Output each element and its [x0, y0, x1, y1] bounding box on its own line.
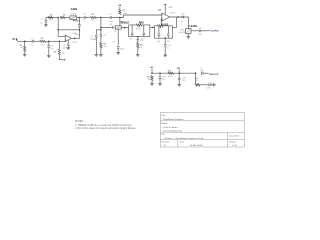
wire U1B inverting feed — [120, 15, 162, 18]
svg-text:1u: 1u — [40, 22, 42, 24]
capacitor C6 — [84, 16, 86, 19]
wire R3 to VB — [59, 55, 62, 60]
wire output riser — [71, 30, 79, 39]
svg-text:100n: 100n — [198, 34, 202, 36]
wire U1A inverting input — [58, 30, 65, 37]
notes text — [75, 121, 137, 130]
svg-text:22n: 22n — [140, 40, 143, 42]
wire C5 to feedback rail — [78, 27, 80, 30]
LED D3 — [209, 82, 212, 86]
resistor R9 — [137, 43, 139, 49]
potentiometer VR2 TREBLE — [115, 26, 121, 29]
svg-text:D:\Users ... ChuckMaster Disto: D:\Users ... ChuckMaster Distortion v1.1… — [165, 137, 205, 140]
junction input/R1 — [24, 41, 26, 43]
VR4 wiper arrow — [159, 27, 161, 29]
wire R2 to node A — [46, 40, 60, 42]
wire BASS cap right — [167, 26, 169, 33]
wire +9V tick — [151, 69, 153, 74]
wire node B to op-amp — [59, 40, 65, 41]
wire R7 to VB top — [119, 7, 121, 10]
wire treble feed — [101, 26, 113, 28]
svg-text:R11: R11 — [168, 71, 171, 73]
wire C4 top — [45, 18, 47, 20]
wire U1B output — [170, 16, 189, 18]
wire C19 top — [178, 73, 180, 78]
capacitor C18 — [159, 77, 162, 79]
svg-text:Author: Author — [161, 122, 167, 125]
svg-text:10k: 10k — [41, 44, 44, 46]
resistor R7 — [119, 10, 121, 15]
svg-text:VB: VB — [62, 60, 65, 62]
wire treble wiper down — [117, 29, 119, 45]
svg-text:VB: VB — [177, 68, 180, 70]
wire R10 to ground — [151, 81, 153, 84]
svg-text:10k: 10k — [61, 53, 64, 55]
capacitor C20 — [201, 72, 203, 75]
wire C2 top — [48, 41, 50, 45]
wire C14 bottom — [167, 36, 169, 38]
wire VR1 to C6 — [77, 17, 84, 19]
capacitor C15 (bass tail) — [164, 45, 167, 46]
ground D2 R8 — [99, 55, 103, 57]
resistor R6 — [90, 16, 96, 18]
capacitor C7 — [110, 16, 112, 19]
svg-text:OUTPUT: OUTPUT — [211, 30, 220, 32]
svg-text:1u: 1u — [181, 21, 183, 23]
potentiometer VR1 GAIN — [70, 16, 77, 20]
wire C5 riser top — [78, 18, 80, 25]
capacitor C12 (mid tail) — [137, 40, 140, 41]
junction mid/bass — [152, 27, 154, 29]
wire C12 to R9 — [137, 41, 139, 43]
capacitor C1 — [32, 40, 34, 43]
potentiometer VR3 MID — [136, 24, 142, 26]
svg-text:1 of 1: 1 of 1 — [232, 145, 238, 147]
junction BASS tail — [164, 37, 166, 39]
output connector OUTPUT — [209, 30, 219, 33]
node B junction R3 — [59, 41, 61, 43]
svg-text:100R: 100R — [168, 76, 173, 78]
wire R1 bottom — [24, 52, 26, 55]
wire U1B noninverting riser — [160, 19, 163, 26]
capacitor C13 (bass left) — [158, 34, 161, 35]
svg-text:TREBLE: TREBLE — [119, 22, 129, 25]
svg-text:+9V: +9V — [157, 9, 161, 11]
capacitor C4 (gain gnd) — [45, 21, 48, 22]
ground LEVEL — [187, 37, 191, 39]
wire clip vertical — [100, 18, 102, 30]
svg-text:SW+9V IN: SW+9V IN — [209, 74, 219, 76]
op-amp U1B — [162, 13, 170, 21]
resistor R1 — [24, 46, 26, 52]
svg-text:14-Nov-2020: 14-Nov-2020 — [190, 145, 203, 147]
svg-text:BASS: BASS — [161, 23, 168, 26]
svg-text:TL072: TL072 — [170, 13, 177, 15]
wire R6 to clip node — [96, 17, 101, 19]
ground C2 — [47, 56, 51, 58]
junction PSU d — [195, 72, 197, 74]
ground D1 — [95, 55, 99, 57]
svg-text:1M: 1M — [20, 47, 23, 49]
wire inverting vertical — [57, 18, 59, 30]
wire feedback left leg — [46, 17, 58, 19]
svg-text:Celestial Engineering: Celestial Engineering — [163, 130, 182, 133]
capacitor C8 — [113, 26, 114, 28]
svg-text:47u: 47u — [162, 79, 165, 81]
wire C20 to SW9V — [203, 72, 209, 74]
wire R1 top — [24, 41, 26, 45]
diode D2 — [100, 34, 102, 36]
ground C15 — [163, 55, 167, 57]
wire LED to ground — [211, 84, 214, 86]
junction clip node top — [100, 17, 102, 19]
svg-text:Sheets: Sheets — [229, 140, 235, 143]
capacitor C2 — [48, 46, 51, 47]
svg-text:TL072: TL072 — [72, 42, 79, 44]
wire C18 top — [159, 73, 161, 76]
wire R12 to LED — [200, 84, 209, 86]
wire feedback riser U1B — [172, 17, 176, 27]
junction PSU b — [159, 72, 161, 74]
resistor R12 — [195, 84, 199, 86]
svg-text:1N34A: 1N34A — [90, 38, 97, 41]
potentiometer VR4 BASS — [157, 25, 163, 27]
wire C10 bottom — [131, 35, 133, 37]
capacitor C14 (bass right) — [167, 34, 170, 35]
wire C17 to OUTPUT — [201, 30, 209, 32]
wire feedback rail — [58, 29, 79, 31]
junction MID tail — [137, 36, 139, 38]
wire D1 to ground — [95, 38, 97, 55]
svg-text:22n: 22n — [167, 41, 170, 43]
capacitor C5 (wiper) — [78, 25, 81, 26]
capacitor C3 (bypass) — [67, 44, 70, 45]
svg-text:LEVEL: LEVEL — [190, 25, 199, 28]
resistor R8 — [100, 43, 102, 49]
ground R9 — [136, 55, 140, 57]
svg-text:47u: 47u — [182, 80, 185, 82]
resistor R2 — [40, 40, 46, 42]
junction VR1 right terminal — [79, 17, 81, 19]
ground R1 — [23, 54, 27, 56]
wire MID cap right — [143, 25, 145, 33]
svg-text:Revision: Revision — [161, 141, 170, 143]
resistor R5 — [60, 16, 65, 18]
wire R5 to VR1 — [65, 17, 70, 19]
junction clip split — [100, 29, 102, 31]
resistor R4 — [48, 16, 53, 18]
junction PSU a — [151, 72, 153, 74]
input connector IN — [13, 38, 18, 41]
svg-text:4k7: 4k7 — [195, 80, 198, 82]
wire MID tail — [137, 37, 139, 39]
svg-text:U1B: U1B — [168, 7, 173, 9]
svg-text:100n: 100n — [62, 48, 66, 50]
svg-text:Document: Document — [229, 135, 239, 138]
wire BASS cap left — [158, 26, 160, 33]
wire C18 to ground — [159, 78, 161, 83]
svg-text:VB: VB — [118, 5, 121, 7]
wire C15 to ground — [164, 47, 166, 55]
wire C9 to ground — [117, 49, 119, 53]
ground LED (sideways) — [214, 83, 216, 86]
svg-text:1u: 1u — [31, 45, 33, 47]
wire BASS block outline — [154, 26, 157, 28]
wire C13 bottom — [158, 36, 160, 38]
ground C4 — [44, 25, 48, 27]
ground C3 — [67, 48, 71, 50]
wire mid-bass link — [150, 26, 155, 28]
junction PSU c — [178, 72, 180, 74]
capacitor C17 — [199, 30, 201, 33]
wire U1B power riser — [164, 4, 166, 15]
junction treble tap — [100, 27, 102, 29]
resistor R10 — [151, 76, 153, 81]
capacitor C16 — [182, 16, 184, 19]
wire C11 bottom — [143, 35, 145, 37]
wire C12-R9 — [137, 41, 139, 44]
svg-text:1. TREBLE & MID are no-load po: 1. TREBLE & MID are no-load pots. BASS n… — [75, 124, 132, 127]
svg-text:1u: 1u — [200, 68, 202, 70]
svg-text:A100K: A100K — [179, 31, 186, 34]
potentiometer VR5 LEVEL — [186, 29, 191, 34]
node A junction C2 — [48, 41, 50, 43]
svg-text:1k: 1k — [140, 47, 142, 49]
svg-text:1u: 1u — [167, 47, 169, 49]
wire clip right leg — [100, 30, 102, 34]
wire clip left leg — [96, 30, 101, 35]
wire MID cap left — [131, 25, 133, 33]
wire U1A bypass riser — [67, 40, 69, 43]
ground R10 — [150, 84, 154, 86]
junction R7 node — [119, 17, 121, 19]
VR3 wiper arrow — [138, 26, 140, 28]
wire C3 to ground — [67, 46, 69, 48]
wire D2 to R8 — [100, 37, 102, 43]
wire MID block outline — [129, 25, 137, 28]
ground C18 — [158, 84, 162, 86]
svg-text:C20: C20 — [200, 70, 203, 72]
svg-text:IN: IN — [13, 38, 16, 41]
wire R3 top — [58, 41, 60, 49]
junction feedback rail — [57, 29, 59, 31]
svg-text:22n: 22n — [157, 41, 160, 43]
wire C19 to ground — [178, 80, 180, 85]
wire C2 bottom — [48, 48, 50, 56]
svg-text:LED: LED — [207, 88, 211, 90]
svg-text:B10K: B10K — [136, 28, 141, 30]
svg-text:Chuck D. Bones: Chuck D. Bones — [163, 127, 178, 129]
wire to LEVEL pot — [188, 17, 190, 29]
wire VR1 wiper jog — [73, 20, 79, 21]
svg-text:1k: 1k — [50, 19, 52, 21]
ground C9 — [116, 53, 120, 55]
junction output — [74, 38, 76, 40]
wire LEVEL wiper out — [191, 30, 199, 32]
svg-text:2M2: 2M2 — [148, 79, 152, 81]
op-amp U1A — [65, 35, 71, 42]
title block frame — [160, 113, 244, 148]
svg-text:MID: MID — [139, 22, 144, 25]
capacitor C10 (mid left) — [131, 33, 134, 34]
wire LEVEL to ground — [187, 33, 189, 36]
wire BASS tail — [164, 38, 166, 44]
wire input rail — [17, 40, 32, 42]
wire VR1 node to treble pot — [119, 18, 121, 26]
svg-text:1u: 1u — [83, 20, 85, 22]
resistor R3 — [58, 49, 60, 55]
junction U1B output — [177, 16, 179, 18]
svg-text:NOTES:: NOTES: — [75, 121, 84, 123]
wire VB tick — [178, 70, 180, 74]
capacitor C9 (treble cut) — [117, 47, 120, 48]
junction treble out — [124, 27, 126, 29]
title block text — [161, 114, 239, 147]
wire C7 to R7 node — [112, 17, 120, 19]
wire C6 to R6 — [86, 17, 90, 19]
svg-text:470k: 470k — [123, 13, 127, 15]
wire R9 to ground — [137, 48, 139, 54]
diode D1 — [95, 35, 97, 37]
svg-text:10k: 10k — [91, 20, 94, 22]
wire R8 to ground — [100, 48, 102, 54]
svg-text:GAIN: GAIN — [71, 8, 77, 11]
svg-text:10k: 10k — [114, 31, 117, 33]
svg-text:2. R11 & first-stage trim colo: 2. R11 & first-stage trim colours symmet… — [75, 127, 137, 130]
ground C19 — [177, 85, 181, 87]
wire clip top to C7 — [101, 17, 110, 19]
svg-text:100n: 100n — [120, 49, 124, 51]
svg-text:100n: 100n — [109, 21, 113, 23]
svg-text:B100K: B100K — [71, 13, 77, 15]
junction R4/R5 — [57, 17, 59, 19]
wire C4 bottom — [45, 23, 47, 25]
wire PSU rail — [152, 72, 196, 74]
svg-text:ChuckMaster Distortion: ChuckMaster Distortion — [163, 118, 184, 121]
wire C1 to R2 — [34, 40, 40, 42]
capacitor C19 — [178, 78, 181, 80]
wire treble out — [121, 26, 128, 28]
junction feedback/riser — [79, 29, 81, 31]
capacitor C11 (mid right) — [143, 33, 146, 34]
wire LED branch — [195, 73, 197, 85]
resistor R11 — [168, 72, 174, 74]
